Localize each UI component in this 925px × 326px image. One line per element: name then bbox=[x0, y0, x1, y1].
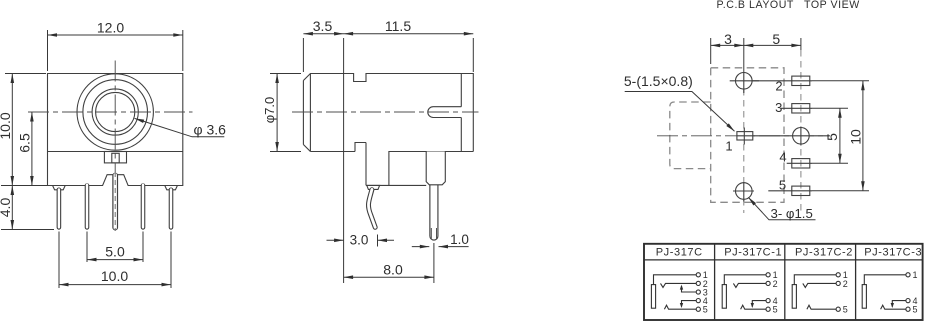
straight pin bbox=[429, 178, 438, 236]
svg-text:3: 3 bbox=[724, 31, 732, 47]
jack sleeve symbol bbox=[862, 285, 866, 309]
base inner block bbox=[389, 152, 426, 186]
bushing outer circle bbox=[77, 74, 153, 150]
dim 3 and 5 top bbox=[710, 38, 712, 64]
tip contact wire to terminal 2 bbox=[733, 283, 766, 287]
pin 2 bbox=[85, 186, 90, 228]
svg-text:4: 4 bbox=[779, 150, 786, 165]
svg-text:8.0: 8.0 bbox=[383, 261, 403, 277]
terminal 5 bbox=[836, 307, 840, 311]
svg-text:12.0: 12.0 bbox=[97, 19, 124, 35]
FRONT VIEW of jack PJ-317C bbox=[28, 61, 193, 232]
ring contact wire to terminal 5 bbox=[664, 305, 696, 309]
table header line bbox=[644, 259, 923, 261]
terminal 3 bbox=[696, 290, 700, 294]
terminal 5 bbox=[906, 307, 910, 311]
svg-text:10.0: 10.0 bbox=[101, 268, 128, 284]
svg-text:TOP VIEW: TOP VIEW bbox=[804, 0, 860, 11]
wire to terminal 1 bbox=[654, 275, 697, 285]
svg-text:2: 2 bbox=[775, 79, 782, 94]
switch wire terminal 4 to 5 bbox=[892, 301, 906, 307]
terminal 4 bbox=[906, 299, 910, 303]
svg-text:4.0: 4.0 bbox=[0, 198, 13, 218]
terminal 5 bbox=[766, 307, 770, 311]
side centerline bbox=[292, 111, 479, 113]
pad 2 bbox=[792, 76, 810, 85]
pad 4 bbox=[792, 159, 810, 168]
svg-text:1: 1 bbox=[913, 270, 918, 280]
body outline dashed bbox=[711, 68, 784, 203]
jack sleeve symbol bbox=[722, 285, 726, 309]
svg-text:5: 5 bbox=[779, 177, 786, 192]
pin 1 bbox=[57, 190, 62, 228]
pin 1 seat bbox=[53, 186, 66, 190]
svg-text:3: 3 bbox=[775, 100, 782, 115]
center pin (shunt) bbox=[112, 176, 118, 228]
table column dividers bbox=[715, 244, 856, 320]
bushing flange circle bbox=[83, 80, 148, 145]
svg-text:P.C.B LAYOUT: P.C.B LAYOUT bbox=[717, 0, 794, 11]
TABLE of variants bbox=[644, 244, 923, 320]
pin 4 bbox=[141, 186, 146, 228]
bottom tab inner key bbox=[112, 153, 119, 163]
wire to terminal 1 bbox=[864, 275, 906, 285]
dim 12.0 extension lines bbox=[48, 30, 183, 71]
base bottom bbox=[366, 184, 426, 186]
svg-text:2: 2 bbox=[843, 279, 848, 289]
pin 5 seat bbox=[165, 186, 178, 190]
svg-text:10.0: 10.0 bbox=[0, 112, 13, 139]
svg-text:PJ-317C-2: PJ-317C-2 bbox=[795, 247, 853, 259]
schematic cell PJ-317C bbox=[651, 270, 707, 314]
dim bottom 10.0 bbox=[59, 284, 171, 286]
dim 5.0 extension lines bbox=[87, 232, 143, 263]
schematic cell PJ-317C-2 bbox=[792, 270, 848, 314]
dim bottom 10.0 extension lines bbox=[59, 232, 171, 289]
switch wire terminal 4 to 5 bbox=[682, 301, 697, 307]
ring contact wire to terminal 5 bbox=[881, 305, 906, 309]
table outer border bbox=[644, 244, 923, 320]
bottom notch bbox=[355, 143, 366, 152]
hole 2 (middle, dia 1.5) bbox=[793, 128, 810, 145]
ring contact wire to terminal 5 bbox=[807, 305, 836, 309]
label 3-dia1.5 bbox=[748, 197, 815, 220]
pad 3 bbox=[792, 104, 810, 113]
tip contact wire to terminal 2 bbox=[661, 283, 697, 287]
horizontal centerline bbox=[657, 135, 830, 137]
hole 1 (top, dia 1.5) bbox=[736, 73, 753, 90]
pin holder block bbox=[426, 152, 445, 185]
svg-text:3- φ1.5: 3- φ1.5 bbox=[771, 206, 813, 221]
bent pin seat bbox=[367, 185, 380, 189]
dim 5.0 bbox=[87, 259, 143, 261]
dim 3.0 bbox=[327, 239, 395, 241]
jack sleeve symbol bbox=[792, 285, 796, 309]
svg-text:5: 5 bbox=[773, 305, 778, 315]
schematic cell PJ-317C-3 bbox=[862, 270, 917, 314]
svg-text:1.0: 1.0 bbox=[450, 232, 469, 247]
svg-text:5: 5 bbox=[843, 305, 848, 315]
wire to terminal 1 bbox=[724, 275, 766, 285]
svg-text:1: 1 bbox=[725, 138, 732, 153]
terminal 5 bbox=[696, 307, 700, 311]
tip contact wire to terminal 2 bbox=[803, 283, 836, 287]
leader dia 3.6 bbox=[135, 118, 225, 136]
center pin dashed centerline bbox=[114, 172, 116, 231]
svg-text:5: 5 bbox=[772, 31, 780, 47]
top outline with notch bbox=[303, 74, 473, 152]
dim 12.0 bbox=[48, 34, 183, 36]
terminal 1 bbox=[766, 273, 770, 277]
back inner edge bbox=[460, 74, 462, 152]
horizontal centerline bbox=[28, 111, 193, 113]
ext lines 3.5/11.5 bbox=[303, 38, 473, 283]
svg-text:5.0: 5.0 bbox=[105, 243, 125, 259]
wire pad1 to middle hole bbox=[737, 135, 830, 137]
svg-text:5: 5 bbox=[824, 133, 840, 141]
bushing front bottom chamfer bbox=[303, 145, 310, 152]
wire to terminal 1 bbox=[794, 275, 836, 285]
pad 1 (1.5 x 0.8) bbox=[737, 132, 753, 140]
pin 5 bbox=[169, 190, 174, 228]
dim dia 7.0 bbox=[270, 74, 301, 152]
jack sleeve symbol bbox=[651, 285, 655, 309]
dim 3.5 and 11.5 bbox=[303, 33, 473, 35]
svg-text:φ7.0: φ7.0 bbox=[262, 97, 277, 124]
jack body outline (front) bbox=[48, 74, 183, 186]
bushing front face bbox=[302, 81, 304, 145]
bottom tab bbox=[104, 152, 126, 163]
svg-text:3.0: 3.0 bbox=[350, 232, 369, 247]
svg-text:5-(1.5×0.8): 5-(1.5×0.8) bbox=[624, 73, 693, 89]
SIDE VIEW of jack bbox=[292, 74, 479, 239]
terminal 1 bbox=[836, 273, 840, 277]
svg-text:PJ-317C-3: PJ-317C-3 bbox=[864, 247, 922, 259]
dim 10 right bbox=[812, 81, 869, 191]
pad column centerline bbox=[800, 38, 802, 50]
terminal 4 bbox=[696, 299, 700, 303]
pad 5 bbox=[792, 186, 810, 195]
svg-text:5: 5 bbox=[703, 305, 708, 315]
base front face bbox=[365, 143, 367, 186]
svg-text:φ 3.6: φ 3.6 bbox=[194, 122, 227, 138]
switch wire terminal 4 to 5 bbox=[752, 301, 766, 307]
wire hole1 to pad2 bbox=[752, 80, 812, 82]
straight pin tip lines bbox=[431, 228, 436, 239]
terminal 2 bbox=[836, 281, 840, 285]
svg-text:6.5: 6.5 bbox=[17, 133, 33, 153]
svg-text:3.5: 3.5 bbox=[313, 18, 333, 34]
switch wire terminal 3 to 2 bbox=[682, 286, 697, 292]
bent pin bbox=[368, 190, 375, 228]
body bottom edge right bbox=[389, 151, 473, 153]
hole column centerline bbox=[743, 38, 745, 89]
schematic cell PJ-317C-1 bbox=[722, 270, 777, 314]
dim 8.0 bbox=[433, 243, 435, 283]
wire hole3 to pad5 bbox=[768, 190, 812, 192]
svg-text:PJ-317C-1: PJ-317C-1 bbox=[724, 247, 782, 259]
terminal 4 bbox=[766, 299, 770, 303]
dim 10.0 (height) bbox=[1, 74, 48, 186]
wire pad 3 bbox=[781, 107, 812, 109]
terminal 2 bbox=[696, 281, 700, 285]
terminal 1 bbox=[906, 273, 910, 277]
jack hole circle (dia 3.6) bbox=[96, 92, 135, 131]
dim 4.0 bbox=[1, 229, 54, 231]
dim 1.0 bbox=[412, 246, 469, 248]
side slot (back) bbox=[428, 107, 461, 118]
svg-text:5: 5 bbox=[913, 305, 918, 315]
terminal 2 bbox=[766, 281, 770, 285]
bump outline dashed bbox=[670, 102, 711, 169]
svg-text:10: 10 bbox=[847, 129, 863, 145]
PCB LAYOUT TOP VIEW bbox=[624, 0, 869, 221]
svg-text:PJ-317C: PJ-317C bbox=[656, 247, 703, 259]
dim 6.5 bbox=[31, 112, 33, 186]
jack opening circle bbox=[92, 89, 138, 135]
bushing chamfer edge bbox=[309, 74, 311, 152]
svg-text:2: 2 bbox=[773, 279, 778, 289]
terminal 1 bbox=[696, 273, 700, 277]
svg-text:11.5: 11.5 bbox=[385, 18, 411, 34]
dim 5 right bbox=[812, 108, 848, 163]
wire pad 4 bbox=[787, 162, 812, 164]
body step line bbox=[48, 151, 183, 153]
hole 3 (bottom, dia 1.5) bbox=[736, 183, 753, 200]
vertical centerline bbox=[114, 61, 116, 173]
bushing bottom edge bbox=[310, 151, 355, 153]
ring contact wire to terminal 5 bbox=[741, 305, 766, 309]
